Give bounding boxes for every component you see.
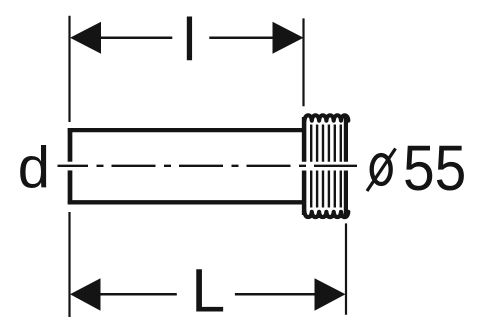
- svg-text:55: 55: [403, 132, 466, 204]
- svg-text:L: L: [191, 257, 225, 325]
- svg-text:d: d: [18, 136, 50, 201]
- svg-text:l: l: [183, 6, 196, 73]
